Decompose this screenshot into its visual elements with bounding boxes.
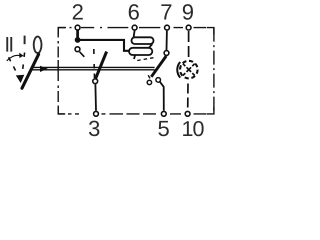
wire terminal 7 (166, 31, 168, 50)
svg-text:6: 6 (128, 0, 140, 24)
wire terminal 3 (94, 84, 97, 110)
illumination lamp (dashed circle) (180, 61, 198, 79)
svg-text:7: 7 (160, 0, 172, 24)
arrowhead of link (40, 66, 48, 72)
lever (actuator, position 0) (22, 54, 39, 88)
rotation arc arrow (7, 55, 20, 61)
wire from junction to coil (78, 40, 131, 51)
svg-text:10: 10 (182, 117, 205, 141)
blade alternate position (dashed) (93, 49, 96, 78)
terminal 5 (161, 111, 166, 116)
lever alternate position I (dashed) (22, 53, 24, 75)
arrowhead on position II leg (16, 75, 24, 83)
switch enclosure dash-dot border (58, 28, 214, 114)
terminal 3 (94, 111, 99, 116)
svg-text:5: 5 (157, 116, 169, 141)
mechanical linkage bar (double line) (32, 66, 155, 68)
junction dot (75, 37, 81, 43)
heating coil exit stub (134, 55, 135, 60)
terminal 7 (165, 25, 170, 30)
lamp reflector arc (177, 62, 180, 78)
dashed wire terminal 9 to lamp (188, 31, 190, 60)
terminal 2 stub wire (76, 30, 79, 40)
heating coil lower loop (129, 48, 152, 55)
svg-text:9: 9 (182, 0, 194, 24)
lamp cross (183, 64, 195, 76)
movable blade of terminal 7 (solid position) (151, 56, 166, 77)
terminal 6 (132, 25, 137, 30)
position marker I (tick) (24, 36, 26, 45)
blade of terminal 7 alternate position (dashed) (136, 58, 153, 61)
terminal 2 (75, 25, 80, 30)
wire terminal 6 to coil (133, 31, 134, 39)
bar end contact tick (148, 75, 150, 78)
dashed wire lamp to terminal 10 (187, 84, 189, 111)
contact tick of terminal 2 (80, 52, 85, 57)
svg-text:3: 3 (88, 116, 100, 141)
pivot contact of terminal 7 (164, 51, 169, 56)
contact of terminal 5 (156, 78, 161, 83)
heating coil upper loop (132, 37, 154, 44)
pivot contact of terminal 3 (93, 79, 98, 84)
svg-text:2: 2 (72, 0, 84, 24)
position label 0 (34, 37, 42, 53)
bar end contact circle (147, 80, 151, 84)
terminal 9 (186, 25, 191, 30)
contact of terminal 2 (75, 47, 80, 52)
movable blade of terminal 3 (solid position) (96, 52, 107, 79)
terminal 10 (185, 111, 190, 116)
position label II (6, 37, 12, 52)
heating coil crossover (149, 44, 153, 48)
wire terminal 5 (160, 82, 164, 111)
lever alternate position II (dashed) (9, 57, 17, 73)
